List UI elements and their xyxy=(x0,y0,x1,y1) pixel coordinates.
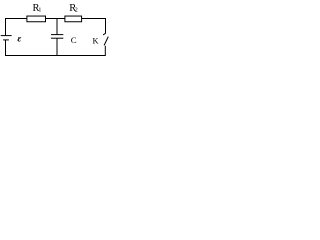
wire middle vertical lower xyxy=(56,38,58,55)
wire middle vertical upper xyxy=(56,19,58,35)
capacitor C top plate xyxy=(51,34,63,36)
switch K upper contact tick xyxy=(103,33,105,35)
svg-text:ε: ε xyxy=(17,35,21,45)
wire bottom horizontal xyxy=(6,55,106,57)
switch K blade xyxy=(104,37,108,46)
wire right vertical upper xyxy=(105,18,107,34)
battery cell ε short plate xyxy=(3,39,9,41)
capacitor C bottom plate xyxy=(51,37,63,39)
wire left vertical upper xyxy=(5,18,7,36)
svg-text:K: K xyxy=(93,37,99,46)
svg-text:C: C xyxy=(71,35,77,45)
wire top horizontal xyxy=(6,18,106,20)
battery cell ε long plate xyxy=(1,35,12,37)
node T-junction top middle xyxy=(56,18,58,21)
svg-text:2: 2 xyxy=(75,7,78,13)
wire left vertical lower xyxy=(5,40,7,56)
resistor R1 body xyxy=(27,16,46,22)
resistor R2 body xyxy=(65,16,82,22)
svg-text:1: 1 xyxy=(38,7,41,13)
wire right vertical lower xyxy=(104,46,106,56)
